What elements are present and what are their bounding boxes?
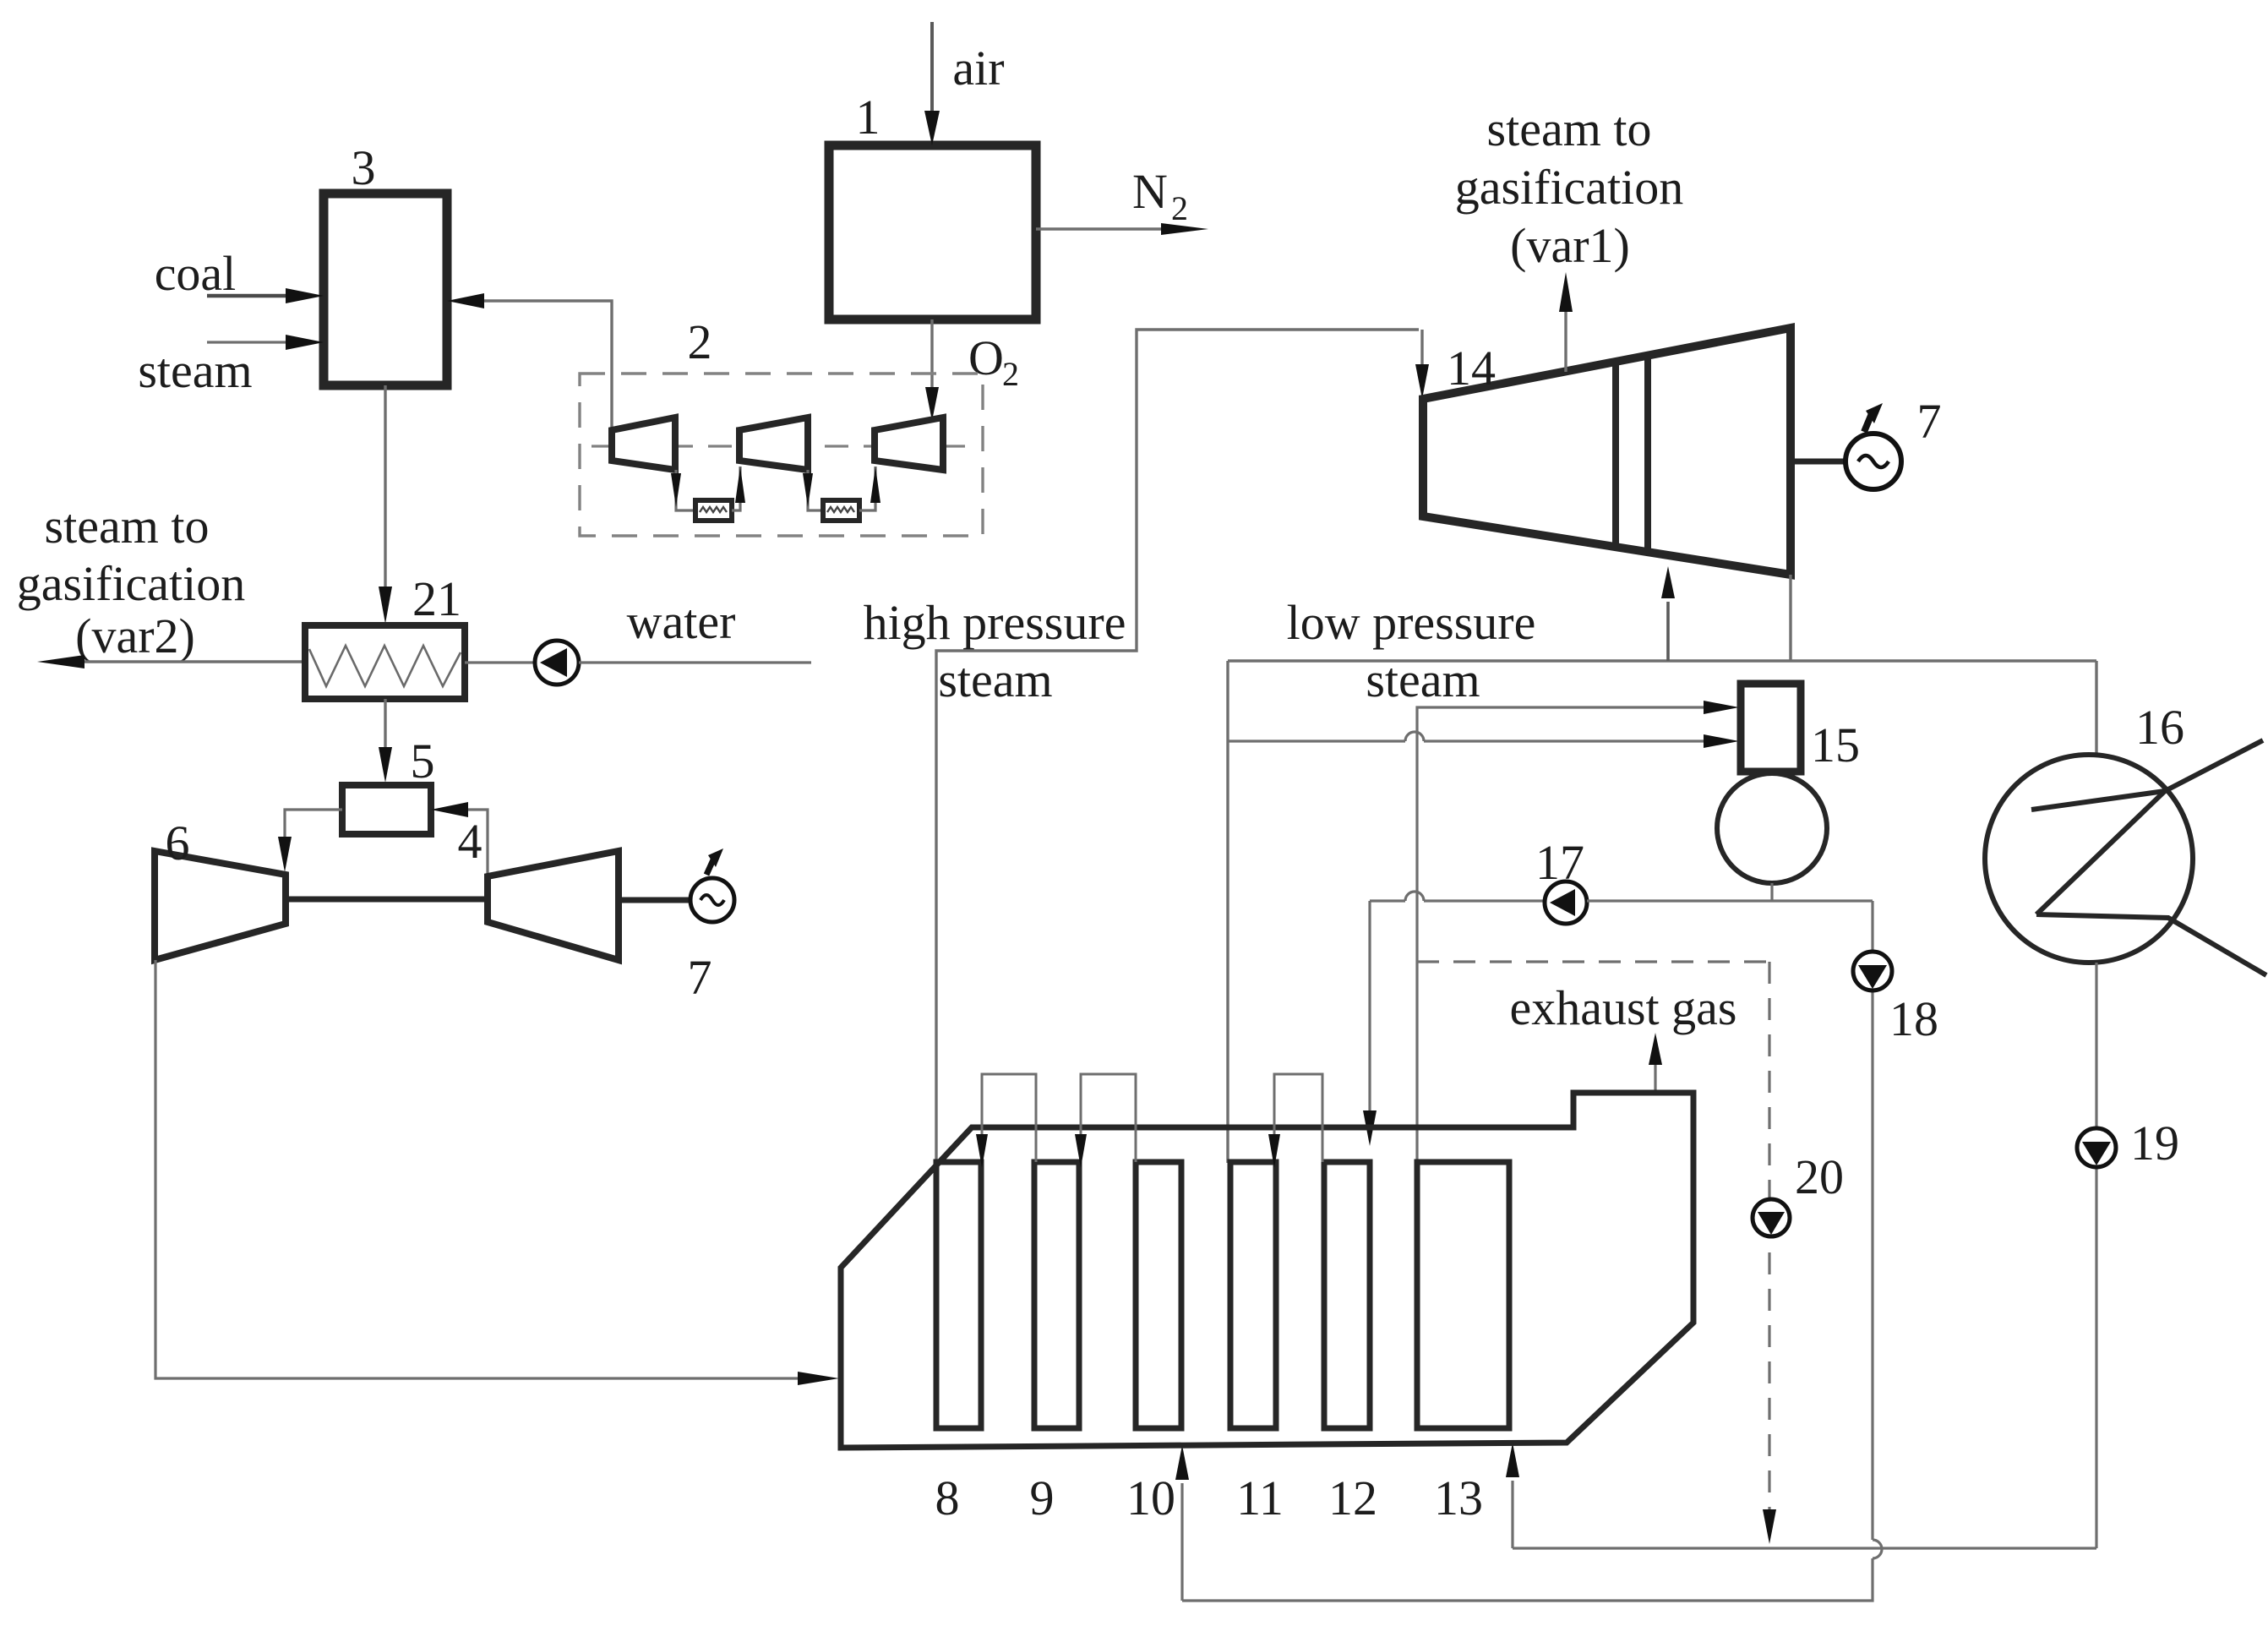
svg-text:10: 10 <box>1126 1470 1175 1525</box>
svg-text:12: 12 <box>1328 1470 1377 1525</box>
svg-text:gasification: gasification <box>1455 160 1684 215</box>
wire coal inlet <box>155 246 324 303</box>
expander 6 <box>155 816 286 960</box>
svg-text:steam: steam <box>938 652 1052 707</box>
tube bank 8 <box>935 1162 982 1525</box>
wire steam to gasification var1 <box>1559 272 1573 372</box>
compressor train 2 dashed boundary <box>580 314 983 536</box>
svg-text:13: 13 <box>1434 1470 1483 1525</box>
wire pump 17 branch down to HRSG economizer <box>1363 901 1377 1146</box>
steam turbine 14 <box>1423 328 1791 575</box>
wire O2 to compressor <box>925 319 1019 421</box>
pump 19 <box>2077 1116 2179 1170</box>
svg-text:N: N <box>1132 164 1168 219</box>
wire intercooler 2 to stage C <box>859 467 880 510</box>
wire expander 6 exhaust to HRSG inlet <box>155 960 839 1385</box>
svg-text:17: 17 <box>1535 835 1584 890</box>
svg-text:steam to: steam to <box>45 499 210 554</box>
wire low pressure steam into turbine 14 <box>1661 566 1675 661</box>
svg-text:exhaust gas: exhaust gas <box>1510 980 1737 1035</box>
tube bank 9 <box>1030 1162 1080 1525</box>
wire deaerator drain <box>1770 883 1773 901</box>
condenser 16 <box>1985 700 2266 975</box>
shaft 6 to 4 <box>286 897 488 903</box>
tube bank 12 <box>1324 1162 1377 1525</box>
wire var2 steam outlet arrow <box>37 655 305 668</box>
pump 18 <box>1853 952 1938 1046</box>
label steam to gasification (var1) <box>1455 101 1684 273</box>
wire deaerator feed (lower) with pipe hop <box>1228 732 1739 748</box>
wire high pressure steam: HRSG riser to turbine 14 inlet <box>936 330 1429 1163</box>
generator 7 upper <box>1791 394 1942 489</box>
svg-text:8: 8 <box>935 1470 960 1525</box>
wire N2 outlet <box>1036 164 1208 235</box>
svg-text:2: 2 <box>1002 355 1019 393</box>
svg-text:21: 21 <box>412 571 461 626</box>
compressor 4 <box>458 814 619 960</box>
svg-text:11: 11 <box>1236 1470 1284 1525</box>
pipe loop over banks 8-9 <box>976 1074 1036 1168</box>
svg-text:19: 19 <box>2130 1116 2179 1170</box>
svg-text:5: 5 <box>411 734 435 788</box>
air separation unit 1 <box>829 90 1036 319</box>
deaerator 15 <box>1717 684 1860 883</box>
label low pressure steam <box>1287 595 1536 707</box>
svg-text:(var2): (var2) <box>75 608 195 663</box>
svg-text:high pressure: high pressure <box>864 595 1126 650</box>
svg-text:water: water <box>627 594 736 649</box>
svg-text:coal: coal <box>155 246 237 301</box>
svg-text:2: 2 <box>1171 189 1188 227</box>
gasifier 3 <box>324 140 447 385</box>
pipe loop over banks 11-12 <box>1268 1074 1322 1168</box>
intercooler 2 <box>823 500 859 521</box>
svg-text:1: 1 <box>856 90 880 145</box>
svg-text:20: 20 <box>1795 1149 1844 1204</box>
wire steam inlet <box>138 335 324 398</box>
svg-text:16: 16 <box>2135 700 2184 755</box>
compressor stage C <box>875 417 943 470</box>
wire compressor 4 to valve 5 <box>431 802 488 875</box>
feedwater pump 17 <box>1370 835 1873 924</box>
label high pressure steam <box>864 595 1126 707</box>
svg-text:air: air <box>952 41 1004 95</box>
svg-text:steam to: steam to <box>1487 101 1652 156</box>
water feed pump <box>465 594 811 685</box>
heat exchanger 21 <box>305 571 465 699</box>
svg-text:gasification: gasification <box>17 556 246 611</box>
wire gasifier to heat exchanger 21 <box>379 385 392 624</box>
svg-text:15: 15 <box>1811 718 1860 772</box>
svg-text:14: 14 <box>1447 341 1496 396</box>
svg-text:(var1): (var1) <box>1510 218 1630 273</box>
wire heat exchanger 21 to valve 5 <box>379 699 435 788</box>
tube bank 10 <box>1126 1162 1181 1525</box>
svg-text:7: 7 <box>688 950 712 1005</box>
svg-text:steam: steam <box>138 343 252 398</box>
svg-text:low pressure: low pressure <box>1287 595 1536 650</box>
wire syngas from compressor to gasifier <box>447 293 612 432</box>
wire stage B to intercooler 2 <box>803 470 823 510</box>
label steam to gasification (var2) <box>17 499 246 663</box>
wire intercooler 1 to stage B <box>732 467 745 510</box>
svg-text:2: 2 <box>688 314 712 369</box>
wire low pressure steam riser from HRSG <box>1226 661 1229 1163</box>
tube bank 11 <box>1230 1162 1284 1525</box>
wire valve 5 to expander 6 <box>278 810 342 872</box>
svg-text:7: 7 <box>1917 394 1942 449</box>
shaft centerline of compressor train <box>592 445 968 447</box>
generator 7 lower <box>619 848 734 1005</box>
wire deaerator heating steam feed (upper) <box>1417 701 1739 1163</box>
wire condenser to pump 19 and condensate header <box>1506 963 2096 1548</box>
wire turbine 14 exhaust to condenser <box>1791 575 2096 753</box>
pipe loop over banks 9-10 <box>1075 1074 1136 1168</box>
wire air inlet <box>924 22 1005 145</box>
wire low pressure header / turbine exhaust line <box>1228 659 2096 662</box>
svg-text:O: O <box>968 330 1004 385</box>
pump 20 <box>1753 1149 1844 1236</box>
tube bank 13 <box>1417 1162 1509 1525</box>
svg-text:6: 6 <box>166 816 190 870</box>
HRSG casing <box>841 1093 1693 1448</box>
compressor stage A <box>612 417 675 470</box>
svg-text:4: 4 <box>458 814 482 869</box>
wire exhaust-gas condensate dashed line <box>1417 962 1776 1544</box>
svg-text:9: 9 <box>1030 1470 1055 1525</box>
valve box 5 <box>342 785 431 834</box>
intercooler 1 <box>695 500 732 521</box>
compressor stage B <box>739 417 808 470</box>
wire exhaust gas stack arrow <box>1649 1033 1662 1093</box>
svg-text:18: 18 <box>1889 991 1938 1046</box>
svg-text:3: 3 <box>352 140 376 195</box>
wire stage A to intercooler 1 <box>671 470 695 510</box>
wire pump 18 branch from feed line <box>1175 901 1882 1601</box>
